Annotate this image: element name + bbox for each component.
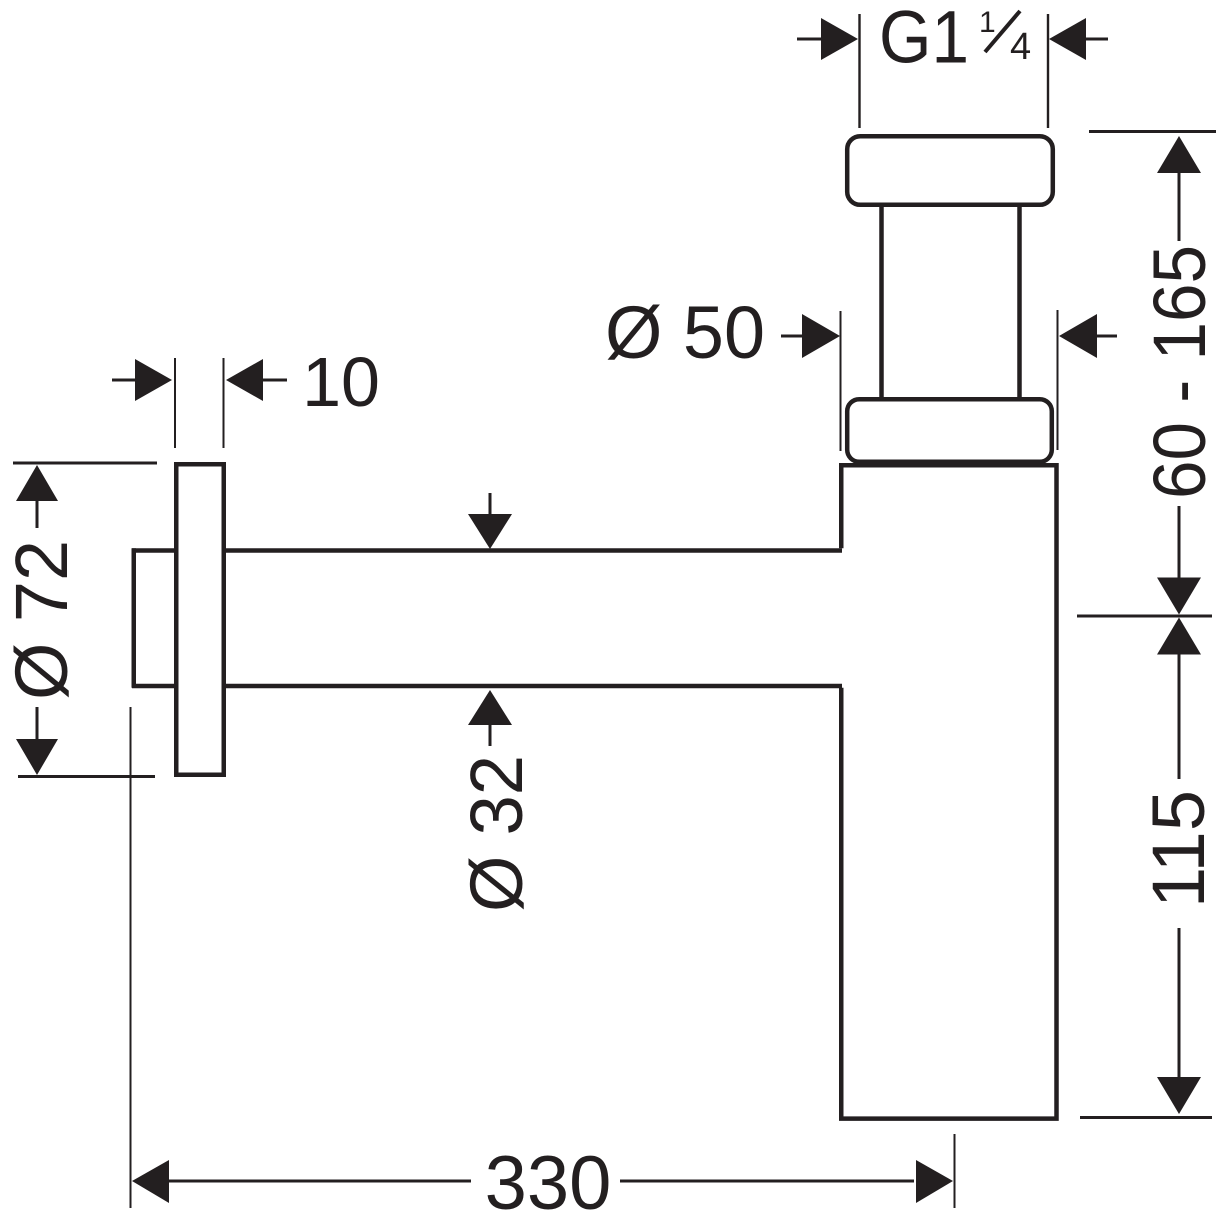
trap body bbox=[841, 465, 1056, 1118]
dim 10 left arrow with tail bbox=[112, 359, 172, 401]
dim 330 left arrow bbox=[132, 1160, 169, 1203]
label G1 1/4 bbox=[879, 0, 1031, 79]
svg-text:330: 330 bbox=[485, 1141, 612, 1219]
dim G1 left arrow bbox=[797, 18, 858, 60]
dim 32 up arrow with stem bbox=[468, 690, 512, 746]
dim 50 right arrow with tail bbox=[1059, 314, 1117, 358]
dim 72 down arrow with stem bbox=[16, 707, 58, 775]
dim 330 line right segment bbox=[620, 1180, 914, 1183]
dim 60-165 top tick bbox=[1089, 130, 1216, 133]
dim 50 right extension line bbox=[1057, 310, 1059, 450]
inlet tailpiece pipe walls bbox=[882, 204, 1020, 400]
dim G1 right extension line bbox=[1047, 14, 1049, 128]
dim 72 bottom tick bbox=[18, 775, 155, 778]
dim 60-165 up arrow with stem bbox=[1157, 136, 1201, 241]
dim 32 down arrow with stem bbox=[468, 493, 512, 549]
svg-text:Ø 72: Ø 72 bbox=[0, 540, 83, 700]
dim 330 right arrow bbox=[916, 1160, 953, 1203]
dim 60-165 down arrow with stem bbox=[1157, 506, 1201, 615]
dim 10 extension lines bbox=[175, 358, 224, 448]
dim 72 up arrow with stem bbox=[16, 465, 58, 528]
lower slip nut bbox=[847, 399, 1052, 462]
dim 115 down arrow with stem bbox=[1157, 928, 1201, 1114]
horizontal waste pipe bbox=[132, 548, 845, 688]
dim G1 right arrow bbox=[1049, 18, 1108, 60]
shared tick between 60-165 and 115 bbox=[1077, 615, 1212, 618]
dim 50 left extension line bbox=[840, 311, 842, 451]
svg-text:Ø 32: Ø 32 bbox=[455, 755, 538, 912]
top slip nut G1 1/4 bbox=[847, 136, 1053, 205]
svg-text:115: 115 bbox=[1137, 790, 1220, 908]
dim 330 right extension line bbox=[954, 1134, 956, 1208]
wall flange bbox=[176, 464, 224, 775]
dim 330 left extension line bbox=[130, 707, 132, 1208]
dim 115 up arrow with stem bbox=[1157, 618, 1201, 780]
svg-text:60 - 165: 60 - 165 bbox=[1138, 245, 1220, 499]
svg-text:4: 4 bbox=[1010, 26, 1031, 68]
svg-text:G1: G1 bbox=[879, 0, 969, 79]
svg-text:Ø 50: Ø 50 bbox=[605, 291, 765, 374]
svg-text:1: 1 bbox=[979, 6, 996, 39]
dim G1 left extension line bbox=[858, 14, 860, 128]
dim 72 top tick bbox=[13, 462, 157, 465]
dim 50 left arrow with tail bbox=[781, 314, 840, 358]
svg-text:10: 10 bbox=[302, 343, 380, 421]
dim 10 right arrow with tail bbox=[226, 359, 287, 401]
dim 330 line left segment bbox=[168, 1180, 471, 1183]
bottom tick at trap body base bbox=[1080, 1116, 1212, 1119]
